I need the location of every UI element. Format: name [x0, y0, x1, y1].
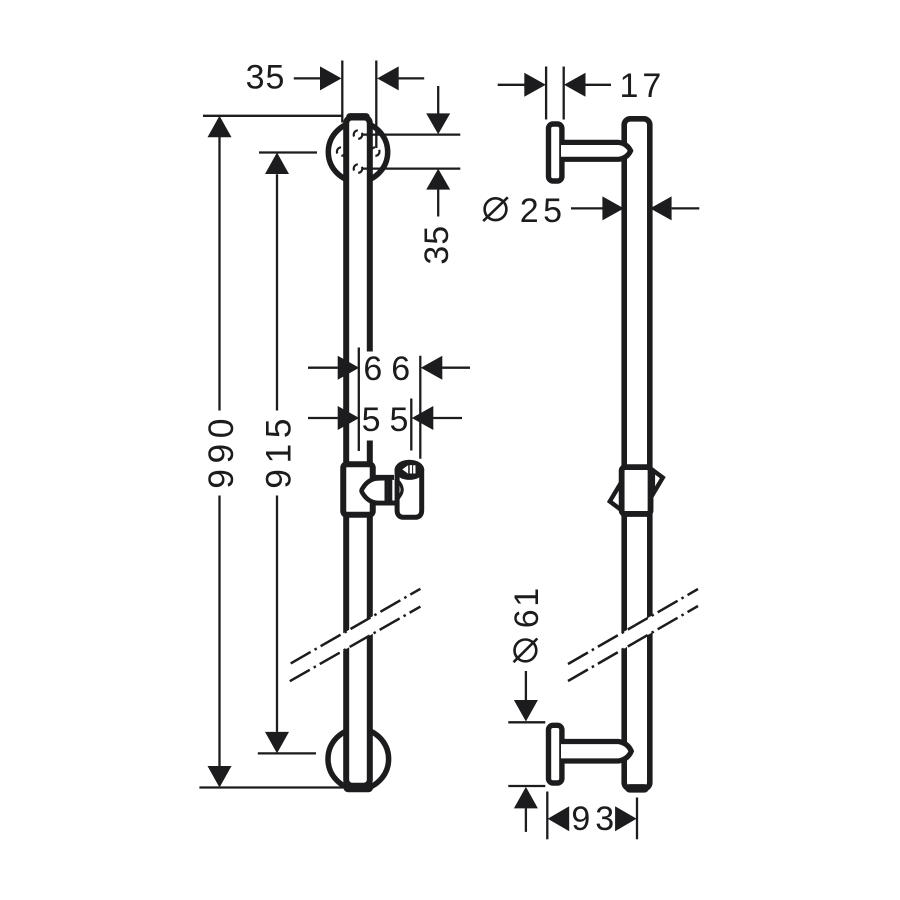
dim 35 top extension right [375, 61, 377, 149]
rail bottom cap (side view) [630, 784, 645, 793]
slider block (side view) [622, 467, 651, 514]
dim 35 vertical arrow down [426, 113, 450, 134]
wall plate bottom (side view) [549, 725, 562, 783]
dim 66 extension right [419, 356, 421, 459]
dim 35 top right arrow [377, 66, 399, 90]
break line lower (side view) [568, 606, 698, 681]
bar bottom cap [348, 783, 369, 792]
svg-text:990: 990 [201, 413, 241, 489]
hole reference line upper [363, 133, 461, 135]
dim d61 upper line [525, 671, 527, 700]
white knockout behind 66/55 labels [362, 352, 413, 441]
diameter symbol d25 [485, 198, 507, 220]
dim d61 lower line [525, 808, 527, 832]
holder arm top edge [376, 475, 395, 480]
dim 990 bottom reference line [199, 786, 343, 788]
svg-text:915: 915 [258, 413, 298, 489]
svg-text:25: 25 [520, 192, 567, 230]
dim 55 right arrow [412, 406, 434, 430]
svg-text:35: 35 [246, 59, 286, 97]
bracket screw hole N [354, 130, 363, 139]
dim 93 arrow right [615, 806, 637, 831]
slider tab left (side view) [610, 481, 622, 510]
dim 990 line [218, 137, 220, 768]
wall bracket circle bottom (front view) [328, 729, 389, 790]
svg-text:66: 66 [363, 350, 419, 388]
dim d61 arrow down [514, 700, 538, 722]
dim 35 vertical lower line [437, 190, 439, 217]
dim 17 left line [498, 84, 525, 86]
dim d25 left line [571, 207, 603, 209]
dim 915 bottom reference line [258, 752, 316, 754]
bar top cap [350, 113, 366, 120]
cap slot triangle [402, 465, 408, 474]
diameter symbol d61 [515, 640, 537, 662]
dim 66 extension left [358, 348, 360, 452]
dim 55 left line [308, 417, 338, 419]
break line upper (side view) [568, 589, 698, 664]
svg-text:93: 93 [571, 800, 619, 838]
dim 17 extension left [545, 67, 547, 120]
svg-text:17: 17 [619, 67, 665, 105]
bracket screw hole E [371, 147, 380, 156]
dim 915 arrow top [265, 153, 289, 175]
dim d25 right line [672, 207, 700, 209]
dim d61 top reference line [508, 721, 545, 723]
dim 915 top reference line [259, 151, 317, 153]
holder cone [362, 478, 390, 503]
dim 17 right line [586, 84, 612, 86]
dim 17 right arrow [564, 73, 586, 97]
break line lower (front view) [290, 607, 421, 682]
dim d25 right arrow [650, 196, 672, 220]
slider block (front view) [343, 464, 373, 515]
dim 66 left arrow [338, 356, 360, 380]
svg-text:55: 55 [362, 401, 418, 439]
holder arm bottom edge [376, 501, 400, 506]
dim 93 extension right [636, 798, 638, 840]
dim 66 left line [308, 367, 338, 369]
dim 55 extension right [410, 399, 412, 451]
dim d61 bottom reference line [508, 785, 545, 787]
break band knockout (front view) [290, 589, 421, 681]
bracket arm bottom (side view) [561, 742, 631, 762]
bracket screw hole W [337, 147, 346, 156]
cap slot bar 2 [413, 465, 415, 473]
rail bar (front view) [346, 117, 370, 786]
svg-text:35: 35 [418, 225, 456, 265]
hole reference line lower [363, 167, 461, 169]
dim 93 extension left [546, 792, 548, 840]
dim 66 right line [442, 367, 470, 369]
holder cone divider [385, 478, 388, 503]
dim 915 arrow bottom [265, 732, 289, 754]
dim d25 left arrow [602, 196, 624, 220]
dim 990 arrow top [208, 116, 232, 138]
dim 55 right line [433, 417, 462, 419]
bracket screw hole S [354, 164, 363, 173]
dim 990 arrow bottom [208, 766, 232, 788]
dim 35 vertical upper line [437, 86, 439, 114]
holder cylinder body [397, 469, 422, 517]
dim 35 vertical arrow up [426, 169, 450, 190]
break line upper (front view) [291, 589, 421, 664]
wall plate top (side view) [549, 124, 562, 181]
holder cylinder cap [395, 460, 425, 480]
dim 915 line [276, 174, 278, 732]
dim d61 arrow up [514, 787, 538, 809]
svg-text:61: 61 [508, 585, 546, 628]
holder profile curve [395, 478, 402, 503]
dim 17 left arrow [524, 73, 546, 97]
wall bracket circle top (front view) [328, 122, 387, 181]
dim 35 top extension left [341, 61, 343, 123]
dim 17 extension right [563, 67, 565, 120]
dim 35 top left arrow [320, 66, 342, 90]
slider tab right (side view) [653, 470, 663, 494]
dim 55 left arrow [338, 406, 360, 430]
cap slot bar 1 [410, 465, 412, 473]
break band knockout (side view) [568, 589, 698, 681]
rail tube (side view) [624, 119, 650, 789]
dim 93 arrow left [548, 806, 570, 831]
dim 35 top left line [294, 77, 321, 79]
dim 66 right arrow [421, 356, 443, 380]
bracket arm top (side view) [561, 142, 631, 159]
dim 990 top reference line [203, 115, 342, 117]
dim 35 top right line [399, 77, 425, 79]
